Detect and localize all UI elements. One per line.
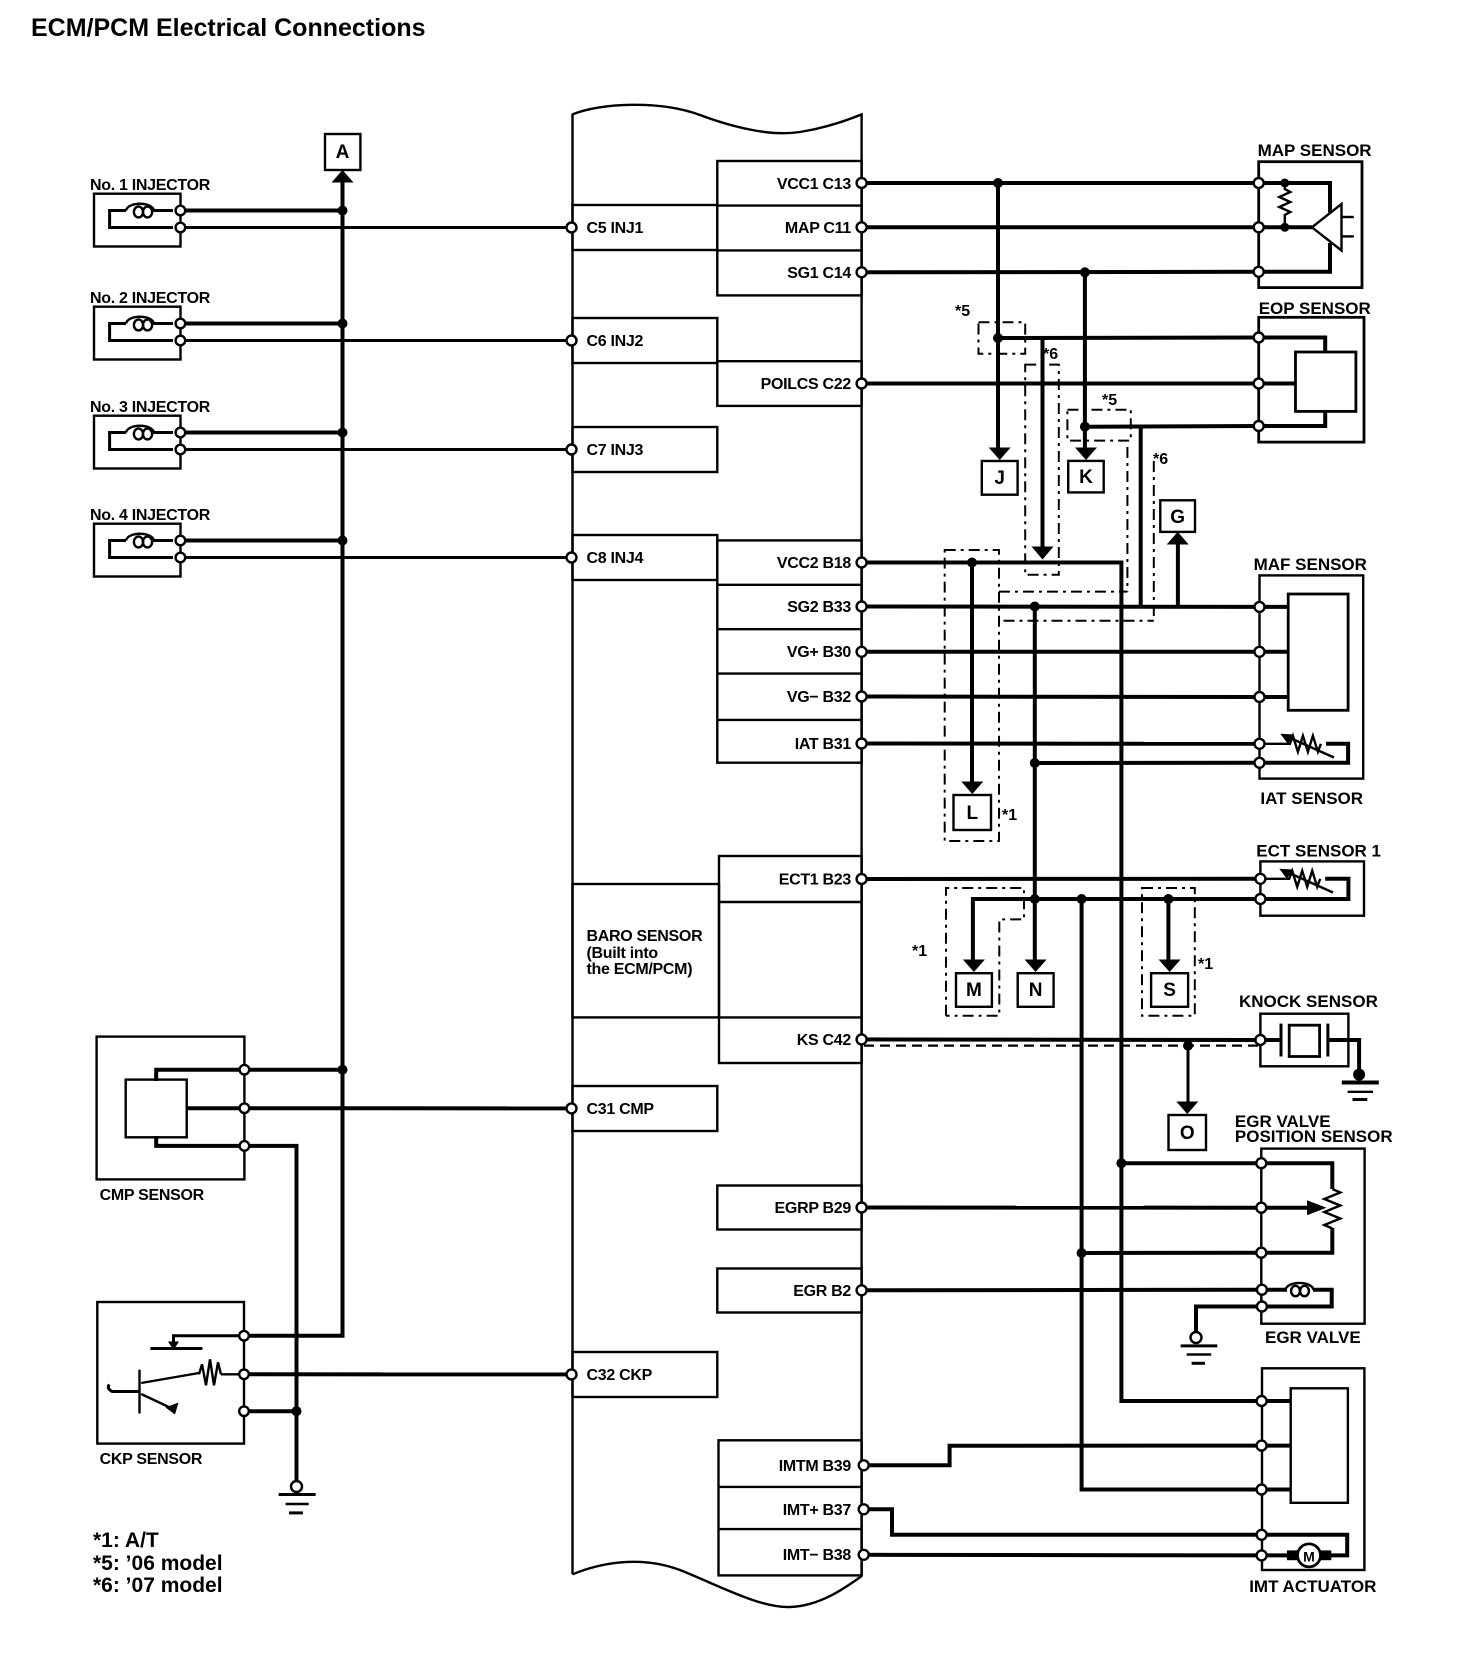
svg-text:C5 INJ1: C5 INJ1 bbox=[587, 220, 644, 237]
pin box ECT1/baro/KS tall group bbox=[719, 856, 862, 1063]
terminal inj1 top bbox=[176, 206, 186, 216]
junction inj3/A bbox=[338, 428, 348, 438]
terminal EGRP B29 bbox=[857, 1203, 867, 1213]
terminal EGRP t1 bbox=[1256, 1158, 1266, 1168]
dash-dot box *5 lower (K junction) bbox=[1067, 410, 1130, 441]
dash-dot box *5 upper bbox=[979, 322, 1026, 353]
pin box group VCC1/MAP/SG1 bbox=[717, 161, 861, 295]
terminal CMP t3 bbox=[240, 1141, 250, 1151]
junction inj2/A bbox=[338, 319, 348, 329]
svg-text:VCC1 C13: VCC1 C13 bbox=[777, 176, 851, 193]
terminal C31 CMP bbox=[567, 1103, 577, 1113]
terminal inj4 top bbox=[176, 536, 186, 546]
terminal VG+ B30 bbox=[857, 647, 867, 657]
pin box EGRP B29 bbox=[717, 1186, 861, 1230]
terminal EOP t2 bbox=[1254, 379, 1264, 389]
junction shield/O-branch bbox=[1183, 1041, 1193, 1051]
wire inj2 top to node A line bbox=[180, 322, 342, 326]
wire inj3 top to node A line bbox=[180, 431, 342, 435]
svg-text:*1: A/T: *1: A/T bbox=[93, 1529, 159, 1552]
No. 1 INJECTOR bbox=[90, 177, 211, 247]
terminal MAP t3 bbox=[1254, 267, 1264, 277]
wire ECT1 B23 to ECT sensor bbox=[862, 877, 1261, 881]
pin box C32 CKP bbox=[573, 1352, 718, 1397]
junction J-branch/EOP-top bbox=[993, 333, 1003, 343]
svg-text:M: M bbox=[1303, 1549, 1315, 1565]
terminal CMP t1 bbox=[240, 1065, 250, 1075]
pin box group VCC2..IAT bbox=[717, 540, 861, 762]
wire VCC1 C13 to MAP sensor bbox=[862, 181, 1259, 185]
wire node A vertical trunk bbox=[341, 180, 345, 1336]
svg-text:EGR B2: EGR B2 bbox=[793, 1283, 851, 1300]
terminal VG- B32 bbox=[857, 692, 867, 702]
shield wire dashed knock sensor bbox=[864, 1044, 1260, 1046]
wire CKP t2 to C32 CKP bbox=[221, 1373, 244, 1375]
CMP SENSOR bbox=[97, 1037, 245, 1204]
wire MAP internal ground bbox=[1259, 243, 1330, 272]
svg-text:N: N bbox=[1029, 980, 1043, 1001]
junction ECT-return/N-branch bbox=[1030, 894, 1040, 904]
svg-text:POSITION SENSOR: POSITION SENSOR bbox=[1235, 1127, 1393, 1146]
terminal inj3 top bbox=[176, 428, 186, 438]
terminal MAF t2 bbox=[1255, 647, 1265, 657]
svg-text:G: G bbox=[1170, 507, 1185, 528]
svg-text:(Built into: (Built into bbox=[587, 945, 659, 962]
svg-text:C6 INJ2: C6 INJ2 bbox=[587, 333, 644, 350]
svg-text:No. 3 INJECTOR: No. 3 INJECTOR bbox=[90, 399, 211, 416]
dash-dot box *6 left bbox=[1025, 365, 1059, 575]
KNOCK SENSOR bbox=[1239, 992, 1379, 1100]
junction K-branch/EOP-bottom bbox=[1080, 422, 1090, 432]
svg-text:CKP SENSOR: CKP SENSOR bbox=[100, 1451, 203, 1468]
terminal SG1 C14 bbox=[857, 267, 867, 277]
svg-text:O: O bbox=[1180, 1123, 1195, 1144]
svg-text:A: A bbox=[336, 142, 350, 163]
svg-text:*5: ’06 model: *5: ’06 model bbox=[93, 1552, 223, 1575]
wire ECT sensor return line bbox=[973, 899, 1261, 961]
dash-dot box around L wire bbox=[945, 550, 999, 841]
terminal EGRP t3 bbox=[1256, 1248, 1266, 1258]
thermistor ECT bbox=[1260, 871, 1320, 887]
wire knock internal bbox=[1260, 1038, 1281, 1042]
terminal inj3 bottom bbox=[176, 445, 186, 455]
junction CKP t3 / ground line bbox=[292, 1406, 302, 1416]
svg-text:No. 2 INJECTOR: No. 2 INJECTOR bbox=[90, 290, 211, 307]
dash-dot channel lower bbox=[1004, 620, 1154, 622]
wire G branch vertical bbox=[1176, 544, 1180, 607]
pin box C8 INJ4 bbox=[573, 535, 718, 580]
pin box C6 INJ2 bbox=[573, 318, 718, 363]
dash-dot box around S bbox=[1142, 888, 1195, 1016]
terminal inj4 bottom bbox=[176, 553, 186, 563]
op-amp output stubs bbox=[1342, 216, 1354, 218]
pin box C5 INJ1 bbox=[573, 205, 718, 250]
terminal VCC1 C13 bbox=[857, 178, 867, 188]
svg-text:MAP C11: MAP C11 bbox=[785, 220, 851, 237]
EOP SENSOR bbox=[1254, 299, 1371, 442]
wire to EOP sensor top terminal bbox=[998, 336, 1259, 341]
connector L box bbox=[954, 795, 992, 830]
wire EOP internal t3 bbox=[1259, 411, 1326, 426]
terminal C5 INJ1 bbox=[567, 223, 577, 233]
wire IMTM B39 to IMT actuator bbox=[864, 1446, 1262, 1466]
terminal IMT+ B37 bbox=[859, 1504, 869, 1514]
wire K-branch down to SG2 line bbox=[1139, 427, 1143, 607]
wire O branch vertical bbox=[1187, 1046, 1190, 1104]
svg-text:C7 INJ3: C7 INJ3 bbox=[587, 442, 644, 459]
wire to EOP sensor bottom terminal bbox=[1085, 424, 1259, 429]
wire SG1 C14 to MAP sensor bbox=[862, 270, 1259, 275]
wire IMT t1 internal bbox=[1262, 1399, 1291, 1403]
wire J branch vertical bbox=[996, 183, 1000, 450]
terminal CKP t1 bbox=[239, 1331, 249, 1341]
junction VCC2/L-branch bbox=[967, 558, 977, 568]
svg-text:SG2 B33: SG2 B33 bbox=[787, 599, 851, 616]
wire VCC2 B18 across and down to IMT actuator bbox=[862, 563, 1262, 1402]
wire IMT t5 internal bbox=[1262, 1553, 1288, 1557]
wire CMP t1 to node A line bbox=[244, 1068, 342, 1072]
svg-text:*1: *1 bbox=[912, 943, 927, 960]
arrow into K bbox=[1075, 448, 1097, 461]
junction SG2/N-branch bbox=[1030, 602, 1040, 612]
connector A box bbox=[325, 134, 360, 170]
No. 4 INJECTOR bbox=[90, 507, 211, 577]
svg-text:L: L bbox=[966, 803, 978, 824]
svg-text:C32 CKP: C32 CKP bbox=[587, 1367, 653, 1384]
terminal IMT t5 bbox=[1257, 1550, 1267, 1560]
EGR VALVE POSITION SENSOR + EGR VALVE bbox=[1181, 1112, 1393, 1363]
terminal CKP t3 bbox=[239, 1406, 249, 1416]
terminal IAT t1 bbox=[1255, 739, 1265, 749]
terminal MAP t2 bbox=[1254, 222, 1264, 232]
terminal IMT- B38 bbox=[859, 1550, 869, 1560]
svg-text:ECT1 B23: ECT1 B23 bbox=[779, 872, 852, 889]
svg-text:*6: *6 bbox=[1153, 451, 1168, 468]
wire inj2 bottom to C6 INJ2 bbox=[180, 339, 571, 342]
terminal MAP t1 bbox=[1254, 178, 1264, 188]
svg-text:ECT SENSOR 1: ECT SENSOR 1 bbox=[1256, 842, 1381, 861]
junction trunk/EGRP-bottom bbox=[1077, 1248, 1087, 1258]
wire EOP internal t1 bbox=[1259, 338, 1326, 353]
pin box POILCS C22 bbox=[717, 361, 861, 406]
svg-text:VCC2 B18: VCC2 B18 bbox=[777, 555, 851, 572]
svg-text:EOP SENSOR: EOP SENSOR bbox=[1259, 299, 1371, 318]
wire CKP t1 to node A line bbox=[244, 1334, 345, 1338]
terminal EGR B2 bbox=[857, 1285, 867, 1295]
dash-dot enclosure *6 right vertical 2 bbox=[1153, 461, 1155, 621]
wire MAP internal VCC bbox=[1259, 183, 1330, 213]
ground symbol knock sensor bbox=[1353, 1069, 1365, 1081]
svg-text:J: J bbox=[994, 468, 1005, 489]
dash-dot enclosure *6 right vertical 1 bbox=[1126, 447, 1128, 592]
arrow into S bbox=[1159, 960, 1181, 973]
wire K branch vertical bbox=[1083, 272, 1087, 450]
terminal ECT t1 bbox=[1255, 874, 1265, 884]
piezo element bbox=[1280, 1024, 1283, 1057]
svg-text:M: M bbox=[966, 980, 982, 1001]
terminal KS C42 bbox=[857, 1034, 867, 1044]
svg-text:C8 INJ4: C8 INJ4 bbox=[587, 550, 644, 567]
op-amp triangle MAP bbox=[1312, 204, 1342, 251]
svg-text:IMT ACTUATOR: IMT ACTUATOR bbox=[1249, 1577, 1376, 1596]
wire *6 branch to VCC2 bbox=[1041, 338, 1045, 547]
svg-text:KNOCK SENSOR: KNOCK SENSOR bbox=[1239, 992, 1378, 1011]
junction CMP/A bbox=[338, 1065, 348, 1075]
svg-text:*5: *5 bbox=[955, 303, 970, 320]
wire IMT t2 internal bbox=[1262, 1444, 1291, 1448]
svg-text:No. 1 INJECTOR: No. 1 INJECTOR bbox=[90, 177, 211, 194]
terminal EOP t3 bbox=[1254, 421, 1264, 431]
wire IMT t3 internal bbox=[1262, 1488, 1291, 1492]
terminal EGR valve t1 bbox=[1257, 1285, 1267, 1295]
junction ECT-return/S-branch bbox=[1163, 894, 1173, 904]
terminal IAT t2 bbox=[1255, 758, 1265, 768]
terminal C7 INJ3 bbox=[567, 445, 577, 455]
pin box EGR B2 bbox=[717, 1269, 861, 1313]
ground symbol G101 below CKP bbox=[279, 1481, 316, 1513]
terminal EGRP t2 bbox=[1256, 1203, 1266, 1213]
terminal EGR valve t2 bbox=[1257, 1302, 1267, 1312]
terminal knock bbox=[1255, 1035, 1265, 1045]
terminal IMT t4 bbox=[1257, 1530, 1267, 1540]
resistor MAP internal bbox=[1279, 183, 1290, 227]
wire CMP t3 to ground line bbox=[244, 1146, 296, 1481]
svg-text:*5: *5 bbox=[1102, 392, 1117, 409]
wire inj1 top to node A line bbox=[180, 209, 342, 213]
wire EGRP sensor ground to trunk bbox=[1082, 1251, 1262, 1255]
wire inj4 bottom to C8 INJ4 bbox=[180, 556, 571, 559]
wire inj4 top to node A line bbox=[180, 539, 342, 543]
terminal IMT t3 bbox=[1257, 1485, 1267, 1495]
arrow into N bbox=[1025, 960, 1047, 973]
wire inj1 bottom to C5 INJ1 bbox=[180, 226, 571, 229]
thermistor arrow ECT bbox=[1287, 872, 1333, 893]
wire POILCS C22 to EOP sensor bbox=[862, 382, 1259, 386]
pin box C31 CMP bbox=[573, 1086, 718, 1131]
svg-text:ECM/PCM Electrical Connections: ECM/PCM Electrical Connections bbox=[31, 14, 426, 42]
CKP SENSOR bbox=[97, 1302, 244, 1468]
thermistor arrow IAT bbox=[1288, 737, 1334, 758]
terminal MAF t1 bbox=[1255, 602, 1265, 612]
svg-text:*6: *6 bbox=[1043, 346, 1058, 363]
wire KS C42 to knock sensor bbox=[862, 1037, 1261, 1042]
svg-text:POILCS C22: POILCS C22 bbox=[761, 376, 852, 393]
arrow into L bbox=[961, 782, 983, 795]
wire EGR B2 to EGR valve bbox=[862, 1288, 1262, 1293]
terminal C8 INJ4 bbox=[567, 553, 577, 563]
svg-text:MAF SENSOR: MAF SENSOR bbox=[1254, 555, 1367, 574]
svg-text:*1: *1 bbox=[1002, 807, 1017, 824]
ECT SENSOR 1 bbox=[1255, 842, 1381, 916]
junction inj1/A bbox=[338, 206, 348, 216]
terminal MAP C11 bbox=[857, 222, 867, 232]
svg-text:BARO SENSOR: BARO SENSOR bbox=[587, 928, 704, 945]
junction resistor bottom bbox=[1280, 223, 1289, 232]
wire L branch vertical bbox=[970, 563, 974, 785]
terminal VCC2 B18 bbox=[857, 558, 867, 568]
connector M box bbox=[956, 973, 992, 1007]
wire IAT sensor return bbox=[1035, 761, 1260, 765]
arrow *6 onto VCC2 wire bbox=[1032, 547, 1054, 560]
wire MAF VG- internal bbox=[1260, 695, 1289, 699]
connector N box bbox=[1018, 973, 1054, 1007]
potentiometer EGRP bbox=[1261, 1163, 1332, 1189]
ECM/PCM connector block outline bbox=[573, 105, 862, 1607]
terminal POILCS C22 bbox=[857, 379, 867, 389]
svg-text:VG− B32: VG− B32 bbox=[787, 689, 852, 706]
terminal EOP t1 bbox=[1254, 333, 1264, 343]
connector J box bbox=[982, 461, 1018, 495]
wire EOP internal t2 bbox=[1259, 382, 1296, 386]
svg-text:EGR VALVE: EGR VALVE bbox=[1265, 1328, 1361, 1347]
junction SG1/K-branch bbox=[1080, 267, 1090, 277]
terminal inj1 bottom bbox=[176, 223, 186, 233]
svg-text:MAP SENSOR: MAP SENSOR bbox=[1258, 141, 1372, 160]
svg-text:K: K bbox=[1079, 467, 1093, 488]
legend bbox=[93, 1529, 223, 1597]
terminal IMTM B39 bbox=[859, 1460, 869, 1470]
terminal ECT1 B23 bbox=[857, 874, 867, 884]
terminal CKP t2 bbox=[239, 1370, 249, 1380]
wire IMT+ B37 to IMT actuator bbox=[864, 1509, 1262, 1535]
thermistor IAT bbox=[1260, 736, 1321, 752]
pin box BARO SENSOR bbox=[573, 884, 720, 1017]
arrow into G bbox=[1167, 532, 1189, 545]
svg-text:CMP SENSOR: CMP SENSOR bbox=[100, 1187, 205, 1204]
svg-text:IMTM B39: IMTM B39 bbox=[779, 1458, 852, 1475]
IMT ACTUATOR bbox=[1249, 1368, 1376, 1596]
svg-text:*6: ’07 model: *6: ’07 model bbox=[93, 1574, 223, 1597]
terminal C32 CKP bbox=[567, 1369, 577, 1379]
svg-text:IAT SENSOR: IAT SENSOR bbox=[1260, 789, 1363, 808]
wire MAP internal signal bbox=[1259, 225, 1312, 229]
terminal IMT t1 bbox=[1257, 1396, 1267, 1406]
svg-text:EGRP B29: EGRP B29 bbox=[775, 1200, 852, 1217]
terminal MAF t3 bbox=[1255, 692, 1265, 702]
terminal inj2 top bbox=[176, 319, 186, 329]
junction VCC1/J-branch bbox=[993, 178, 1003, 188]
svg-text:SG1 C14: SG1 C14 bbox=[787, 265, 851, 282]
arrow into O bbox=[1176, 1102, 1198, 1115]
junction inj4/A bbox=[338, 536, 348, 546]
wire EGRP/EGR-valve return trunk bbox=[1082, 899, 1262, 1490]
junction ECT-return/EGRP-return branch bbox=[1077, 894, 1087, 904]
svg-text:S: S bbox=[1163, 980, 1176, 1001]
wire EGR valve ground bbox=[1196, 1307, 1262, 1332]
connector K box bbox=[1068, 461, 1104, 493]
wire inj3 bottom to C7 INJ3 bbox=[180, 448, 571, 451]
svg-text:IAT B31: IAT B31 bbox=[795, 736, 852, 753]
No. 3 INJECTOR bbox=[90, 399, 211, 469]
wire N branch vertical SG2 to N bbox=[1033, 607, 1037, 963]
svg-text:*1: *1 bbox=[1198, 956, 1213, 973]
svg-text:IMT+ B37: IMT+ B37 bbox=[783, 1502, 852, 1519]
wire S branch vertical bbox=[1166, 899, 1170, 962]
wire SG2 B33 to MAF sensor bbox=[862, 605, 1260, 609]
wire CKP t3 to ground line bbox=[244, 1409, 297, 1413]
arrow into M bbox=[963, 960, 985, 973]
wire IMT t4 internal to motor return bbox=[1262, 1535, 1348, 1556]
junction resistor top bbox=[1280, 179, 1289, 188]
terminal IAT B31 bbox=[857, 739, 867, 749]
arrow into J bbox=[989, 448, 1011, 461]
terminal SG2 B33 bbox=[857, 602, 867, 612]
terminal IMT t2 bbox=[1257, 1441, 1267, 1451]
svg-text:VG+ B30: VG+ B30 bbox=[787, 644, 852, 661]
wire VG+ B30 to MAF sensor bbox=[862, 650, 1260, 654]
No. 2 INJECTOR bbox=[90, 290, 211, 360]
wire IAT B31 to IAT sensor bbox=[862, 742, 1260, 746]
junction N-branch/IAT-return bbox=[1030, 758, 1040, 768]
ground symbol EGR valve bbox=[1191, 1332, 1202, 1343]
terminal C6 INJ2 bbox=[567, 336, 577, 346]
MAF SENSOR with IAT bbox=[1254, 555, 1367, 808]
wire MAP C11 to MAP sensor bbox=[862, 225, 1259, 229]
wire IMT- B38 to IMT motor bbox=[864, 1553, 1262, 1558]
svg-text:the ECM/PCM): the ECM/PCM) bbox=[587, 961, 693, 978]
terminal CMP t2 bbox=[240, 1103, 250, 1113]
solenoid coil EGR valve bbox=[1286, 1283, 1314, 1290]
connector G box bbox=[1160, 500, 1195, 532]
wire EGRP sensor VCC from VCC2 trunk bbox=[1121, 1161, 1261, 1165]
wiper arrow EGRP bbox=[1261, 1206, 1309, 1210]
pin box group IMTM/IMT+/IMT- bbox=[719, 1440, 862, 1575]
svg-text:KS C42: KS C42 bbox=[797, 1032, 852, 1049]
pin box C7 INJ3 bbox=[573, 427, 718, 472]
wire CMP t2 to C31 CMP bbox=[244, 1106, 571, 1110]
terminal ECT t2 bbox=[1255, 894, 1265, 904]
svg-text:IMT− B38: IMT− B38 bbox=[783, 1547, 852, 1564]
wire VG- B32 to MAF sensor bbox=[862, 695, 1260, 700]
junction VCC2-line/EGRP-VCC bbox=[1116, 1158, 1126, 1168]
connector O box bbox=[1169, 1115, 1207, 1150]
svg-text:C31 CMP: C31 CMP bbox=[587, 1101, 655, 1118]
dash-dot enclosure around M bbox=[946, 888, 1024, 1016]
motor M bbox=[1287, 1550, 1298, 1560]
dash-dot channel upper bbox=[999, 591, 1127, 593]
wire EGRP B29 to position sensor wiper bbox=[862, 1206, 1262, 1210]
svg-text:No. 4 INJECTOR: No. 4 INJECTOR bbox=[90, 507, 211, 524]
connector S box bbox=[1151, 973, 1188, 1007]
MAP SENSOR bbox=[1254, 141, 1372, 288]
wire MAF SG2 internal bbox=[1260, 605, 1289, 609]
wire MAF VG+ internal bbox=[1260, 650, 1289, 654]
arrow into A bbox=[332, 170, 354, 183]
terminal inj2 bottom bbox=[176, 336, 186, 346]
